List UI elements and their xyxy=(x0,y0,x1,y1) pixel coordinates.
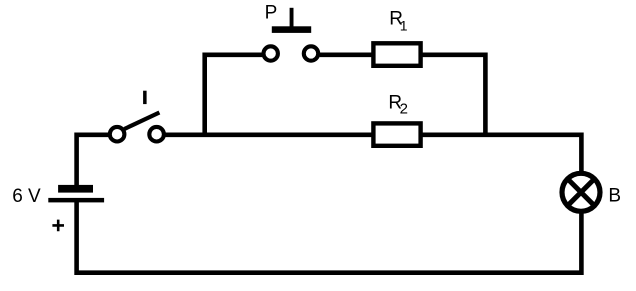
lamp B cross xyxy=(568,179,595,206)
switch I left contact xyxy=(110,127,125,142)
svg-text:2: 2 xyxy=(400,101,408,118)
switch I blade xyxy=(124,113,159,130)
battery positive plate (long thin) xyxy=(48,198,104,203)
label I xyxy=(143,91,147,104)
push button P right contact xyxy=(304,46,318,60)
resistor R1 xyxy=(373,43,420,66)
wire battery top to switch I xyxy=(77,135,109,187)
lamp B circle xyxy=(562,173,600,211)
push button P left contact xyxy=(264,46,278,60)
svg-text:6 V: 6 V xyxy=(12,186,41,207)
push button P stem xyxy=(290,8,294,27)
svg-text:1: 1 xyxy=(400,18,408,34)
battery negative plate (short thick) xyxy=(58,185,93,193)
wire junction A vertical and top-left branch xyxy=(205,55,262,137)
switch I right contact xyxy=(149,127,164,142)
wire lamp bottom, bottom return, up to battery + xyxy=(77,201,582,273)
wire switch I right to lamp corner (middle branch) xyxy=(164,135,581,172)
svg-text:P: P xyxy=(265,3,278,24)
resistor R2 xyxy=(373,123,420,145)
svg-text:B: B xyxy=(608,186,621,207)
label + xyxy=(52,220,64,232)
wire top-right branch and junction B vertical xyxy=(320,55,486,137)
push button P cap bar xyxy=(272,26,311,33)
